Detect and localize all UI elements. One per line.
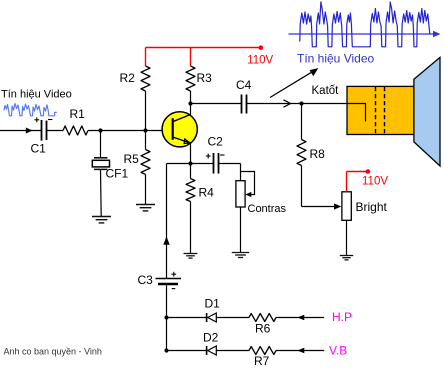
label: Tin hieu Video (output, blue): [297, 52, 374, 66]
label: H.P: [332, 310, 352, 324]
svg-text:Contras: Contras: [248, 203, 287, 215]
svg-text:R7: R7: [254, 354, 270, 368]
svg-text:H.P: H.P: [332, 310, 352, 324]
svg-text:CF1: CF1: [106, 167, 129, 181]
wire: emitter node left: [167, 163, 191, 165]
wire: R6 to H.P (with left arrow): [276, 315, 324, 321]
watermark text: [4, 347, 102, 357]
svg-text:Anh co ban quyền - Vinh: Anh co ban quyền - Vinh: [4, 347, 102, 357]
potentiometer Contras: [236, 181, 287, 215]
transistor Q1 (NPN): [162, 112, 197, 147]
wire: R2 to base node: [145, 91, 147, 131]
ground (R5): [136, 205, 155, 211]
resistor R3: [186, 66, 212, 91]
node: emitter junction: [188, 161, 192, 165]
wire: C3 to D1/D2 nodes: [166, 285, 168, 350]
wire: R1 to transistor base: [88, 130, 172, 132]
label: V.B: [329, 344, 347, 358]
output video waveform axis (blue): [289, 31, 441, 37]
capacitor C2: [206, 135, 225, 174]
node: D1 row junction: [164, 315, 168, 319]
wire: C1 to R1: [47, 130, 64, 132]
wire: Contras to ground: [240, 207, 242, 253]
capacitor C3: [138, 272, 182, 289]
resistor R2: [120, 66, 151, 91]
CRT funnel (light blue): [414, 57, 440, 166]
annotation arrow to waveform: [270, 68, 318, 97]
wire: cathode lead inside CRT: [347, 104, 366, 122]
ground (Bright): [340, 256, 353, 260]
resistor R4: [186, 179, 214, 202]
svg-text:R8: R8: [310, 147, 326, 161]
svg-text:R3: R3: [197, 71, 213, 85]
capacitor C4: [236, 78, 252, 114]
node: cathode junction: [299, 101, 303, 105]
output video waveform (dark blue): [300, 2, 430, 47]
node: 110V terminal dot (red): [259, 45, 264, 50]
svg-text:V.B: V.B: [329, 344, 347, 358]
wire: node down to CF1: [100, 131, 102, 158]
input video waveform (light blue): [4, 104, 56, 116]
wire: collector up to node: [190, 104, 192, 115]
wire: node to D1: [167, 317, 207, 319]
wire: C2 to Contras pot: [219, 164, 241, 181]
svg-text:R1: R1: [70, 107, 86, 121]
svg-text:110V: 110V: [362, 175, 388, 187]
CRT grid dashed line 2: [384, 87, 386, 134]
svg-text:110V: 110V: [247, 54, 273, 66]
wire: C4 to CRT cathode: [247, 100, 348, 107]
wire: cathode node down to R8: [301, 104, 303, 140]
svg-text:Katốt: Katốt: [312, 85, 340, 97]
capacitor C1: [31, 117, 53, 155]
ground (R4): [184, 254, 198, 259]
resistor R7: [249, 347, 276, 369]
svg-text:R5: R5: [124, 152, 140, 166]
svg-text:Bright: Bright: [356, 200, 388, 214]
svg-text:Tín hiệu Video: Tín hiệu Video: [1, 89, 72, 101]
diode D2: [203, 331, 219, 356]
diode D1: [205, 297, 221, 323]
svg-text:C2: C2: [208, 135, 224, 149]
wire: R5 to ground: [145, 175, 147, 205]
wire: R3 to collector node: [190, 91, 192, 104]
ground (Contras): [232, 253, 249, 258]
label: 110V (Bright supply): [362, 175, 388, 187]
CRT grid dashed line 1: [375, 87, 377, 134]
label: 110V (top supply): [247, 54, 273, 66]
wire: Bright to ground: [346, 220, 348, 255]
wire: emitter down to node: [190, 144, 192, 164]
CRT neck (orange): [347, 86, 414, 134]
node: collector junction: [188, 101, 192, 105]
wire: R7 to V.B (with left arrow): [276, 348, 324, 354]
svg-text:R2: R2: [120, 71, 136, 85]
wire: D2 to R7: [216, 350, 249, 352]
wiper wire of Contras: [241, 172, 255, 198]
ground (CF1): [92, 217, 111, 223]
wire: R4 to ground: [190, 202, 192, 254]
wire: input to C1: [0, 128, 42, 134]
wire: 110V supply rail (red): [146, 48, 261, 67]
resistor R6: [249, 314, 276, 336]
wire: Bright to 110V (red): [347, 172, 368, 192]
node: D2 row junction: [164, 348, 168, 352]
svg-text:R6: R6: [255, 322, 271, 336]
resistor R8: [297, 140, 325, 166]
node: junction at R2/R5 branch: [143, 128, 147, 132]
svg-text:C1: C1: [31, 142, 47, 156]
label: Katot: [312, 85, 340, 97]
wire: CF1 to ground: [100, 169, 103, 216]
label: Tin hieu Video (input): [1, 89, 72, 101]
wire: node down to R5: [145, 131, 147, 150]
svg-text:D2: D2: [203, 331, 219, 345]
node: 110V terminal dot 2 (red): [366, 169, 371, 174]
wire: down to C3 (with up arrow): [163, 164, 169, 279]
resistor R1: [63, 107, 88, 135]
wire: D1 to R6: [216, 317, 249, 319]
svg-text:D1: D1: [205, 297, 221, 311]
node: junction at CF1 branch: [98, 128, 102, 132]
wire: node to D2: [167, 350, 207, 352]
svg-text:C4: C4: [236, 78, 252, 92]
wire: emitter node to C2: [191, 163, 214, 165]
wire: collector node to C4: [191, 103, 242, 105]
wire: emitter node to R4: [190, 164, 192, 179]
svg-text:Tín hiệu Video: Tín hiệu Video: [297, 52, 374, 66]
potentiometer Bright: [342, 192, 388, 221]
svg-text:C3: C3: [138, 273, 154, 287]
wire: R8 down and to Bright pot: [302, 166, 342, 210]
svg-text:R4: R4: [199, 186, 215, 200]
resistor R5: [124, 150, 151, 175]
ceramic filter CF1: [92, 158, 128, 181]
